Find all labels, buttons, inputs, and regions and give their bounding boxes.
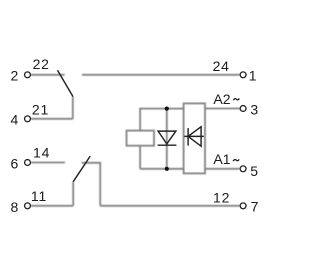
svg-text:8: 8: [11, 199, 19, 215]
svg-text:2: 2: [11, 68, 19, 84]
svg-text:A2: A2: [213, 91, 230, 107]
svg-text:A1: A1: [213, 151, 230, 167]
svg-text:21: 21: [32, 102, 49, 118]
svg-text:12: 12: [213, 190, 230, 206]
svg-text:24: 24: [213, 58, 230, 74]
svg-text:3: 3: [250, 102, 258, 118]
svg-text:14: 14: [33, 145, 50, 161]
svg-text:7: 7: [251, 199, 259, 215]
svg-text:11: 11: [31, 188, 47, 204]
svg-text:6: 6: [11, 156, 19, 172]
svg-text:4: 4: [11, 112, 19, 128]
svg-text:22: 22: [33, 56, 50, 72]
svg-text:1: 1: [249, 68, 257, 84]
svg-text:5: 5: [250, 163, 258, 179]
